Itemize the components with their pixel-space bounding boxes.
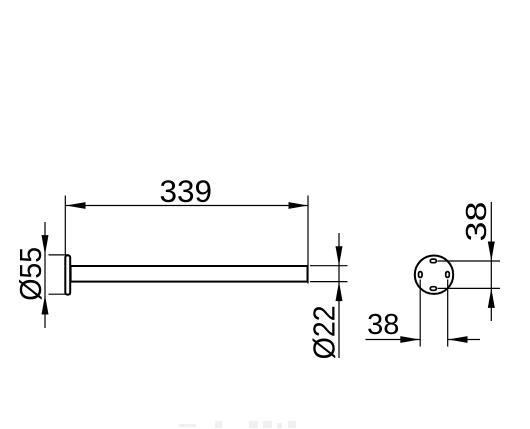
- arrow top of O55: [42, 235, 49, 255]
- wall flange (side view): [65, 255, 70, 294]
- wire: ext line right of horizontal 38: [447, 280, 449, 347]
- arrow bottom of O22: [336, 282, 343, 302]
- arrow left of 339: [66, 202, 86, 209]
- slot left: [419, 272, 423, 278]
- wire: ext line top O55: [49, 254, 70, 256]
- svg-text:38: 38: [367, 309, 399, 341]
- arrow left of horizontal 38: [400, 336, 420, 343]
- wire: dim line horizontal 38 right tail: [448, 339, 480, 341]
- arrow bottom of O55: [42, 295, 49, 315]
- svg-text:38: 38: [461, 202, 493, 242]
- slot bottom: [430, 287, 436, 291]
- wire: dim line O55: [44, 222, 46, 328]
- rod (side view): [71, 266, 308, 282]
- slot top: [430, 259, 436, 263]
- wire: dim line O22: [338, 233, 340, 358]
- arrow right of 339: [289, 202, 309, 209]
- svg-text:339: 339: [160, 173, 213, 209]
- wire: dim line horizontal 38 left tail: [366, 339, 420, 341]
- wire: ext line top O22: [310, 265, 348, 267]
- arrow top of O22: [336, 246, 343, 266]
- wire: ext line top of vertical 38: [438, 260, 501, 262]
- slot right: [446, 272, 450, 278]
- wire: dim 339 line: [66, 205, 308, 207]
- wire: ext line left of 339: [64, 196, 66, 255]
- arrow bottom of vertical 38: [488, 288, 495, 308]
- wire: ext line right of 339: [307, 196, 309, 284]
- mounting plate circle (front view): [415, 256, 453, 294]
- wire: ext line bottom of vertical 38: [438, 287, 501, 289]
- wire: ext line left of horizontal 38: [419, 280, 421, 347]
- arrow right of horizontal 38: [448, 336, 468, 343]
- faint watermark fragments at bottom edge: [179, 421, 296, 428]
- svg-text:Ø55: Ø55: [14, 247, 48, 301]
- arrow top of vertical 38: [488, 242, 495, 262]
- wire: ext line bottom O55: [49, 293, 71, 295]
- svg-text:Ø22: Ø22: [307, 305, 341, 359]
- wire: ext line bottom O22: [310, 281, 348, 283]
- wire: dim line vertical 38: [490, 202, 492, 321]
